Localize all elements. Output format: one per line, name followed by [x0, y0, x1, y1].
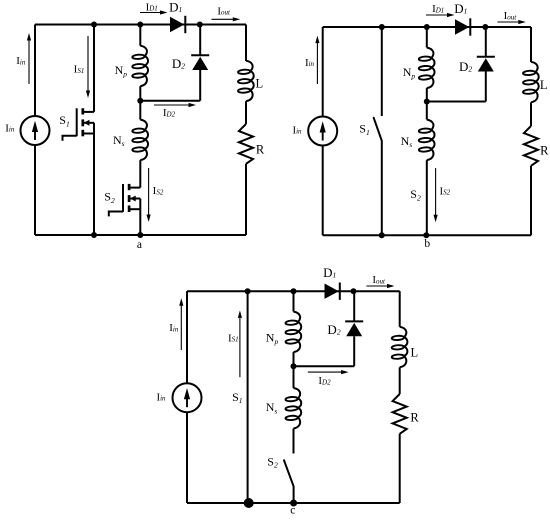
- svg-text:R: R: [256, 143, 265, 157]
- svg-text:L: L: [410, 346, 418, 360]
- svg-text:L: L: [255, 77, 263, 91]
- svg-text:L: L: [540, 78, 548, 92]
- svg-text:b: b: [424, 238, 430, 250]
- svg-text:c: c: [290, 505, 295, 517]
- svg-text:R: R: [540, 144, 549, 158]
- svg-text:R: R: [410, 411, 419, 425]
- svg-text:a: a: [137, 239, 142, 251]
